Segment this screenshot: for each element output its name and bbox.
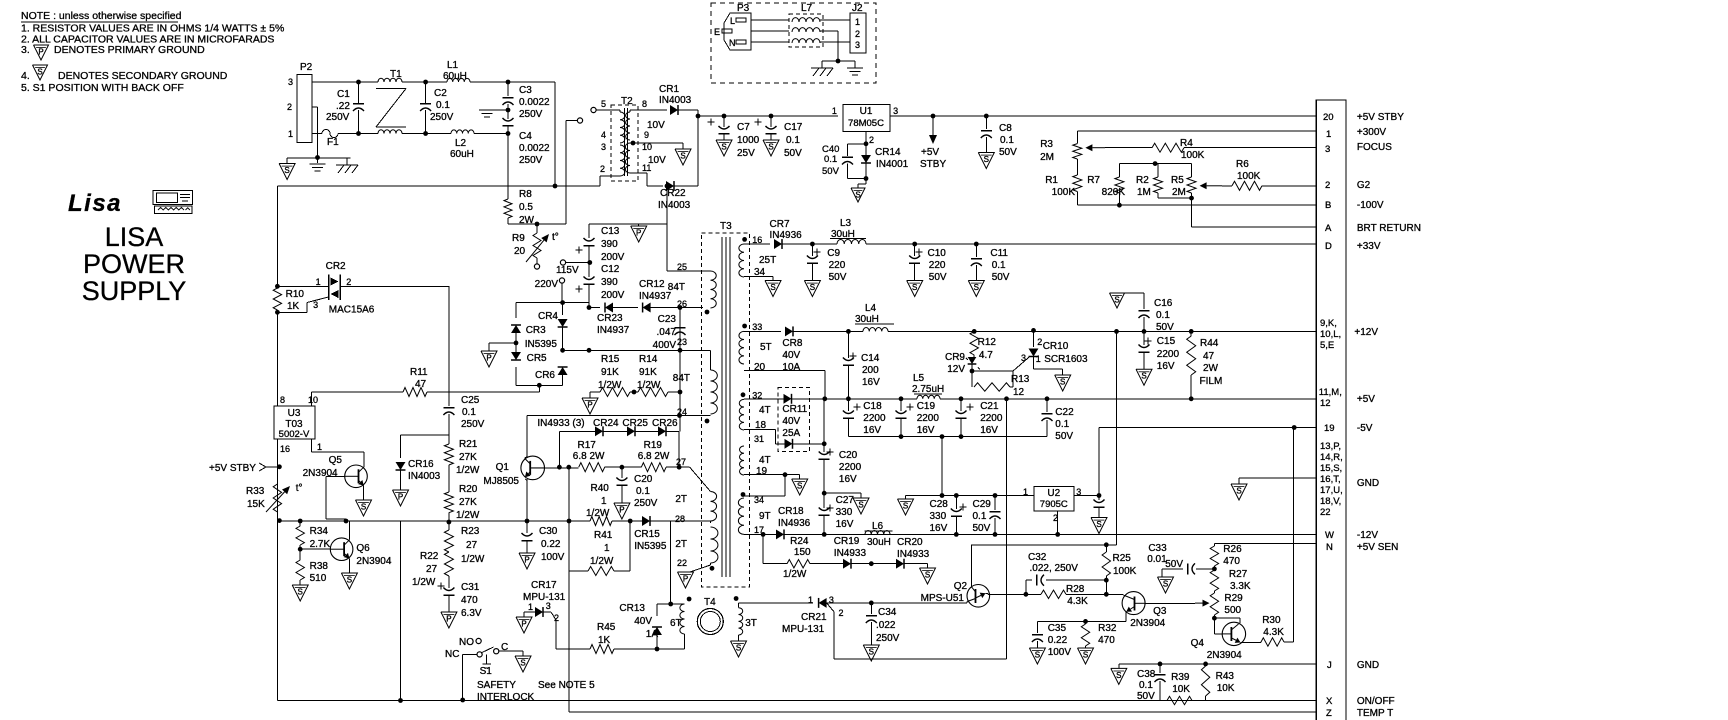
- chassis ground: [811, 67, 833, 69]
- svg-text:R34: R34: [310, 526, 329, 537]
- svg-text:10K: 10K: [1217, 683, 1235, 694]
- secondary ground at bottom GND wire: [1111, 668, 1127, 684]
- svg-text:16V: 16V: [1157, 361, 1175, 372]
- T3 core: [721, 237, 723, 577]
- svg-text:1: 1: [601, 496, 607, 507]
- svg-text:220: 220: [829, 260, 846, 271]
- svg-text:1/2W: 1/2W: [412, 577, 436, 588]
- svg-text:C7: C7: [737, 122, 750, 133]
- svg-text:30uH: 30uH: [867, 537, 891, 548]
- parallel network top bus: [1119, 163, 1191, 165]
- -12V rail: [744, 533, 776, 535]
- svg-text:100K: 100K: [1113, 566, 1137, 577]
- svg-text:16V: 16V: [917, 425, 935, 436]
- primary ground below CR16: [393, 490, 409, 506]
- svg-text:R5: R5: [1171, 175, 1184, 186]
- svg-text:1: 1: [1023, 487, 1028, 497]
- svg-text:390: 390: [601, 277, 618, 288]
- resistor R44: [1189, 329, 1194, 334]
- svg-text:150: 150: [794, 547, 811, 558]
- svg-text:50V: 50V: [973, 523, 991, 534]
- svg-text:2T: 2T: [675, 539, 687, 550]
- svg-text:C21: C21: [980, 401, 999, 412]
- svg-text:P: P: [683, 575, 688, 584]
- svg-text:17,U,: 17,U,: [1320, 485, 1343, 496]
- svg-text:0.0022: 0.0022: [519, 97, 550, 108]
- capacitor C17: [755, 121, 762, 123]
- svg-text:50V: 50V: [929, 272, 947, 283]
- svg-text:0.1: 0.1: [1055, 419, 1069, 430]
- svg-text:U2: U2: [1047, 488, 1060, 499]
- svg-text:2.75uH: 2.75uH: [912, 384, 944, 395]
- svg-text:4.7: 4.7: [979, 350, 993, 361]
- svg-text:250V: 250V: [430, 112, 454, 123]
- svg-text:CR14: CR14: [875, 147, 901, 158]
- svg-text:FOCUS: FOCUS: [1357, 142, 1392, 153]
- svg-text:S: S: [520, 659, 525, 668]
- svg-text:0.1: 0.1: [436, 100, 450, 111]
- svg-text:S: S: [903, 502, 908, 511]
- +33V rail (CR7,L3,C9,C10,C11): [744, 243, 770, 245]
- svg-text:16V: 16V: [980, 425, 998, 436]
- svg-text:23: 23: [677, 337, 687, 347]
- svg-text:NC: NC: [445, 649, 459, 660]
- CR16 branch wire: [401, 434, 449, 436]
- capacitor C7: [708, 121, 715, 123]
- svg-text:CR12: CR12: [639, 279, 665, 290]
- Lisa computer icon: [153, 191, 193, 205]
- svg-text:S: S: [869, 648, 874, 657]
- svg-text:16: 16: [280, 444, 290, 454]
- svg-text:2: 2: [287, 102, 292, 112]
- svg-text:C35: C35: [1048, 623, 1067, 634]
- secondary ground for T2 tap: [675, 149, 691, 165]
- svg-text:.022, 250V: .022, 250V: [1030, 563, 1079, 574]
- svg-text:R27: R27: [1229, 569, 1248, 580]
- svg-text:P: P: [619, 506, 624, 515]
- svg-text:250V: 250V: [876, 633, 900, 644]
- svg-text:R26: R26: [1223, 544, 1242, 555]
- secondary ground below C33: [1158, 577, 1174, 593]
- svg-text:2M: 2M: [1040, 152, 1054, 163]
- svg-text:R6: R6: [1236, 159, 1249, 170]
- wire C4 to R8: [507, 134, 509, 200]
- svg-text:3.3K: 3.3K: [1230, 581, 1251, 592]
- svg-text:Q2: Q2: [954, 581, 968, 592]
- svg-text:S: S: [1060, 378, 1065, 387]
- svg-text:.22: .22: [336, 101, 350, 112]
- svg-text:3: 3: [288, 77, 293, 87]
- svg-text:470: 470: [1098, 635, 1115, 646]
- svg-text:13,P,: 13,P,: [1320, 441, 1341, 452]
- -5V wire to connector: [1098, 428, 1100, 496]
- svg-text:R41: R41: [594, 530, 613, 541]
- svg-text:3: 3: [829, 595, 834, 605]
- svg-text:19: 19: [756, 466, 768, 477]
- CR11 dashed box: [778, 387, 809, 451]
- svg-text:91K: 91K: [601, 367, 619, 378]
- svg-text:S: S: [1035, 651, 1040, 660]
- svg-text:S: S: [736, 644, 741, 653]
- secondary ground after CR20: [920, 568, 936, 584]
- svg-text:0.1: 0.1: [462, 407, 476, 418]
- svg-text:15K: 15K: [247, 499, 265, 510]
- svg-text:2: 2: [346, 277, 351, 287]
- svg-text:250V: 250V: [634, 498, 658, 509]
- svg-text:S: S: [855, 191, 860, 200]
- svg-text:+300V: +300V: [1357, 127, 1387, 138]
- svg-text:50V: 50V: [1156, 322, 1174, 333]
- SCR CR10 gate wire: [972, 370, 1013, 372]
- svg-text:CR22: CR22: [660, 188, 686, 199]
- svg-text:5002-V: 5002-V: [279, 429, 310, 440]
- primary ground below C20: [614, 503, 630, 519]
- T2 pin5 terminal: [619, 110, 621, 112]
- svg-text:0.1: 0.1: [786, 135, 800, 146]
- svg-text:84T: 84T: [668, 282, 685, 293]
- svg-text:+5V STBY: +5V STBY: [1357, 112, 1404, 123]
- svg-text:0.0022: 0.0022: [519, 143, 550, 154]
- svg-text:78M05C: 78M05C: [848, 118, 884, 129]
- svg-text:11,M,: 11,M,: [1319, 387, 1342, 398]
- svg-text:91K: 91K: [639, 367, 657, 378]
- svg-text:L5: L5: [913, 373, 925, 384]
- svg-text:2200: 2200: [839, 462, 862, 473]
- +5V SEN / Q2 collector wire to +12V: [972, 544, 1117, 546]
- svg-text:2200: 2200: [980, 413, 1003, 424]
- svg-text:L: L: [730, 16, 735, 26]
- svg-text:250V: 250V: [461, 419, 485, 430]
- svg-text:C4: C4: [519, 131, 532, 142]
- wire P3-N to J2-3: [751, 41, 789, 43]
- svg-text:C32: C32: [1028, 552, 1047, 563]
- svg-text:CR20: CR20: [897, 537, 923, 548]
- svg-text:2.7K: 2.7K: [310, 539, 331, 550]
- svg-text:27K: 27K: [459, 497, 477, 508]
- svg-text:LISA: LISA: [105, 222, 164, 252]
- capacitor C10: [912, 242, 917, 247]
- svg-text:R3: R3: [1040, 139, 1053, 150]
- svg-text:C25: C25: [461, 395, 480, 406]
- svg-text:18,V,: 18,V,: [1320, 496, 1341, 507]
- svg-text:6.8 2W: 6.8 2W: [638, 451, 670, 462]
- svg-text:250V: 250V: [326, 112, 350, 123]
- svg-text:22: 22: [677, 558, 687, 568]
- svg-text:CR3: CR3: [526, 325, 546, 336]
- svg-text:P3: P3: [737, 3, 750, 14]
- C28/C29 ground bus: [906, 495, 1034, 497]
- svg-text:C34: C34: [878, 607, 897, 618]
- svg-text:0.22: 0.22: [1048, 635, 1068, 646]
- U3 pin16 wire down: [276, 439, 278, 700]
- svg-text:S: S: [1236, 487, 1241, 496]
- P2 ground bus: [287, 157, 350, 159]
- svg-text:2: 2: [1325, 180, 1330, 191]
- svg-text:CR26: CR26: [652, 418, 678, 429]
- +5V rail: [825, 398, 917, 400]
- svg-text:50V: 50V: [1165, 559, 1183, 570]
- svg-text:60uH: 60uH: [450, 149, 474, 160]
- T3 pin22 to primary ground: [710, 563, 712, 565]
- T3 secondary 33-20 (5T): [742, 324, 747, 329]
- svg-text:2200: 2200: [1157, 349, 1180, 360]
- svg-text:C3: C3: [519, 85, 532, 96]
- svg-text:S: S: [284, 166, 289, 175]
- svg-text:MPS-U51: MPS-U51: [921, 593, 965, 604]
- svg-text:1000: 1000: [737, 135, 760, 146]
- svg-text:250V: 250V: [519, 109, 543, 120]
- svg-text:NO: NO: [459, 637, 474, 648]
- svg-text:27: 27: [466, 540, 478, 551]
- T3 pin34 to ground: [744, 276, 773, 278]
- CR2 pin2 wire to R21 rail: [340, 285, 449, 287]
- T3 pin20 wire: [744, 369, 825, 371]
- svg-text:P: P: [486, 354, 491, 363]
- wire R41 bottom loop: [569, 570, 588, 572]
- svg-text:1/2W: 1/2W: [461, 554, 485, 565]
- T3 primary winding 28-22: [711, 527, 718, 563]
- svg-text:100K: 100K: [1181, 150, 1205, 161]
- svg-text:50V: 50V: [784, 148, 802, 159]
- svg-text:100V: 100V: [541, 552, 565, 563]
- svg-text:R7: R7: [1087, 175, 1100, 186]
- T3 secondary 32-18 (4T): [741, 392, 746, 397]
- secondary ground at S1: [515, 656, 531, 672]
- svg-text:S: S: [810, 283, 815, 292]
- svg-text:C27: C27: [836, 495, 855, 506]
- svg-text:R25: R25: [1113, 553, 1132, 564]
- svg-text:2N3904: 2N3904: [1130, 618, 1165, 629]
- svg-text:GND: GND: [1357, 478, 1379, 489]
- svg-text:P: P: [38, 48, 43, 57]
- svg-text:0.1: 0.1: [824, 154, 837, 165]
- svg-text:14,R,: 14,R,: [1320, 452, 1343, 463]
- svg-text:10V: 10V: [647, 120, 665, 131]
- T4 3T winding: [734, 596, 739, 601]
- svg-text:3: 3: [601, 142, 606, 152]
- svg-text:1/2W: 1/2W: [456, 465, 480, 476]
- svg-text:220: 220: [929, 260, 946, 271]
- svg-text:50V: 50V: [1055, 431, 1073, 442]
- svg-text:C2: C2: [434, 88, 447, 99]
- svg-text:2N3904: 2N3904: [356, 556, 391, 567]
- svg-text:IN4933: IN4933: [897, 549, 930, 560]
- svg-text:C11: C11: [990, 248, 1008, 259]
- svg-text:T4: T4: [704, 597, 716, 608]
- svg-text:S: S: [680, 152, 685, 161]
- inductor L2: [451, 130, 474, 134]
- svg-text:12V: 12V: [947, 364, 965, 375]
- svg-text:7905C: 7905C: [1040, 499, 1068, 510]
- ground tie wires: [822, 60, 855, 62]
- svg-text:R1: R1: [1045, 175, 1058, 186]
- svg-text:IN4936: IN4936: [778, 518, 811, 529]
- wire pin23 row: [563, 349, 703, 351]
- svg-text:470: 470: [1223, 556, 1240, 567]
- svg-text:R24: R24: [790, 536, 809, 547]
- svg-text:50V: 50V: [999, 147, 1017, 158]
- svg-text:R19: R19: [644, 440, 663, 451]
- svg-text:t°: t°: [296, 483, 303, 494]
- capacitor C31: [438, 585, 445, 587]
- svg-text:SCR1603: SCR1603: [1044, 354, 1088, 365]
- svg-text:.022: .022: [876, 620, 896, 631]
- svg-text:84T: 84T: [673, 373, 690, 384]
- bottom rail to TEMP T pin: [569, 711, 1316, 713]
- svg-text:CR21: CR21: [801, 612, 827, 623]
- diode bridge top wire from 220V: [562, 302, 589, 304]
- svg-text:C10: C10: [928, 248, 947, 259]
- svg-text:16,T,: 16,T,: [1320, 474, 1341, 485]
- T3 secondary 16-34 (25T): [742, 237, 747, 242]
- zener CR9: [972, 329, 977, 334]
- svg-text:30uH: 30uH: [855, 314, 879, 325]
- svg-text:2: 2: [1037, 337, 1042, 347]
- svg-text:C20: C20: [634, 474, 653, 485]
- svg-text:X: X: [1326, 696, 1333, 707]
- svg-text:P: P: [636, 229, 641, 238]
- svg-text:IN4001: IN4001: [876, 159, 909, 170]
- wire Q1 base row: [545, 467, 579, 469]
- R15 primary ground jog: [590, 391, 600, 393]
- -100V bus wire: [1077, 204, 1316, 206]
- svg-text:200V: 200V: [601, 252, 625, 263]
- long wire +160V row (R40/CR15): [277, 520, 590, 522]
- svg-text:A: A: [1325, 223, 1332, 234]
- earth ground at P2: [316, 158, 318, 163]
- wire U3 pin10 to R11 and bridge: [311, 391, 403, 393]
- svg-text:-100V: -100V: [1357, 200, 1384, 211]
- svg-text:S: S: [770, 283, 775, 292]
- S1 wire to bottom rail: [462, 654, 464, 700]
- svg-text:P2: P2: [300, 62, 313, 73]
- wire P2-2 to ground: [312, 106, 318, 108]
- svg-text:250V: 250V: [519, 155, 543, 166]
- svg-text:W: W: [1325, 530, 1334, 541]
- svg-text:3: 3: [313, 300, 318, 310]
- secondary ground below R32: [1078, 648, 1094, 664]
- svg-text:CR4: CR4: [538, 311, 558, 322]
- svg-text:-5V: -5V: [1357, 423, 1373, 434]
- U3 pin1 wire to Q5: [310, 439, 312, 452]
- svg-text:N: N: [729, 38, 736, 48]
- bridge bottom wire: [516, 384, 563, 386]
- svg-text:CR24: CR24: [593, 418, 619, 429]
- +5V standby rail: [698, 115, 838, 117]
- R30 wire to -5V: [1293, 428, 1295, 643]
- svg-text:1M: 1M: [1137, 187, 1151, 198]
- U2 output wire: [1074, 495, 1099, 497]
- svg-text:C22: C22: [1055, 407, 1074, 418]
- svg-text:3: 3: [855, 40, 860, 50]
- wire to T1: [359, 81, 379, 83]
- capacitor C27: [827, 507, 834, 509]
- svg-text:POWER: POWER: [83, 249, 185, 279]
- wire R8 bottom: [508, 223, 566, 225]
- R2/R5 bottom bus to BRT RETURN: [1158, 197, 1192, 199]
- svg-text:R44: R44: [1200, 338, 1219, 349]
- svg-text:2200: 2200: [917, 413, 940, 424]
- svg-text:0.01: 0.01: [1147, 554, 1167, 565]
- svg-text:P: P: [398, 493, 403, 502]
- capacitor C18: [854, 406, 861, 408]
- wire T2 out to C13 rail: [665, 184, 670, 189]
- svg-text:40V: 40V: [782, 416, 800, 427]
- svg-text:C23: C23: [658, 314, 677, 325]
- svg-text:C8: C8: [999, 123, 1012, 134]
- svg-text:10K: 10K: [1172, 684, 1190, 695]
- svg-text:0.1: 0.1: [1139, 680, 1153, 691]
- svg-text:R28: R28: [1066, 584, 1085, 595]
- svg-text:10A: 10A: [782, 362, 800, 373]
- svg-text:B: B: [1325, 200, 1331, 211]
- svg-text:5. S1 POSITION WITH BACK OFF: 5. S1 POSITION WITH BACK OFF: [21, 82, 184, 94]
- svg-text:0.1: 0.1: [973, 511, 987, 522]
- wire P3-E: [751, 30, 789, 32]
- earth ground: [847, 67, 863, 69]
- svg-text:CR5: CR5: [527, 353, 547, 364]
- svg-text:4: 4: [601, 130, 606, 140]
- svg-text:CR9: CR9: [945, 352, 965, 363]
- left rail continues to U3: [276, 312, 278, 406]
- secondary ground below U2 cap: [1091, 518, 1107, 534]
- svg-text:S: S: [768, 143, 773, 152]
- diode CR11a on pin32 wire: [744, 398, 785, 400]
- svg-text:C38: C38: [1137, 669, 1156, 680]
- svg-text:9,K,: 9,K,: [1320, 318, 1337, 329]
- svg-text:4T: 4T: [759, 455, 771, 466]
- svg-text:L2: L2: [455, 138, 467, 149]
- svg-text:IN4933: IN4933: [834, 548, 867, 559]
- wire P3-L to J2-1: [751, 19, 789, 21]
- svg-text:IN4003: IN4003: [659, 95, 692, 106]
- svg-text:L3: L3: [840, 218, 852, 229]
- svg-text:GND: GND: [1357, 660, 1379, 671]
- svg-text:0.1: 0.1: [1156, 310, 1170, 321]
- svg-text:MPU-131: MPU-131: [782, 624, 825, 635]
- output cap at U2: [1098, 496, 1100, 501]
- svg-text:R45: R45: [597, 622, 616, 633]
- svg-text:CR2: CR2: [326, 261, 346, 272]
- svg-text:0.1: 0.1: [992, 260, 1006, 271]
- wire T1 to L1/L2: [402, 81, 447, 83]
- R3 wiper arrow: [1085, 144, 1105, 151]
- svg-text:R14: R14: [639, 354, 658, 365]
- T2 secondary winding: [626, 112, 630, 140]
- svg-text:L4: L4: [865, 303, 877, 314]
- svg-text:S: S: [1141, 372, 1146, 381]
- svg-text:330: 330: [930, 511, 947, 522]
- svg-text:100K: 100K: [1237, 171, 1261, 182]
- svg-text:1: 1: [288, 129, 293, 139]
- svg-text:470: 470: [461, 595, 478, 606]
- svg-text:S: S: [721, 143, 726, 152]
- svg-text:S: S: [37, 68, 42, 77]
- svg-text:R21: R21: [459, 439, 478, 450]
- svg-text:C12: C12: [601, 264, 620, 275]
- svg-text:60uH: 60uH: [443, 71, 467, 82]
- svg-text:C28: C28: [930, 499, 949, 510]
- svg-text:Q1: Q1: [496, 462, 510, 473]
- svg-text:47: 47: [1203, 351, 1215, 362]
- svg-text:27K: 27K: [459, 452, 477, 463]
- svg-text:IN4003: IN4003: [658, 200, 691, 211]
- svg-text:C13: C13: [601, 226, 620, 237]
- svg-text:S: S: [912, 283, 917, 292]
- svg-text:C19: C19: [917, 401, 936, 412]
- svg-text:R22: R22: [420, 551, 439, 562]
- svg-text:U1: U1: [860, 106, 873, 117]
